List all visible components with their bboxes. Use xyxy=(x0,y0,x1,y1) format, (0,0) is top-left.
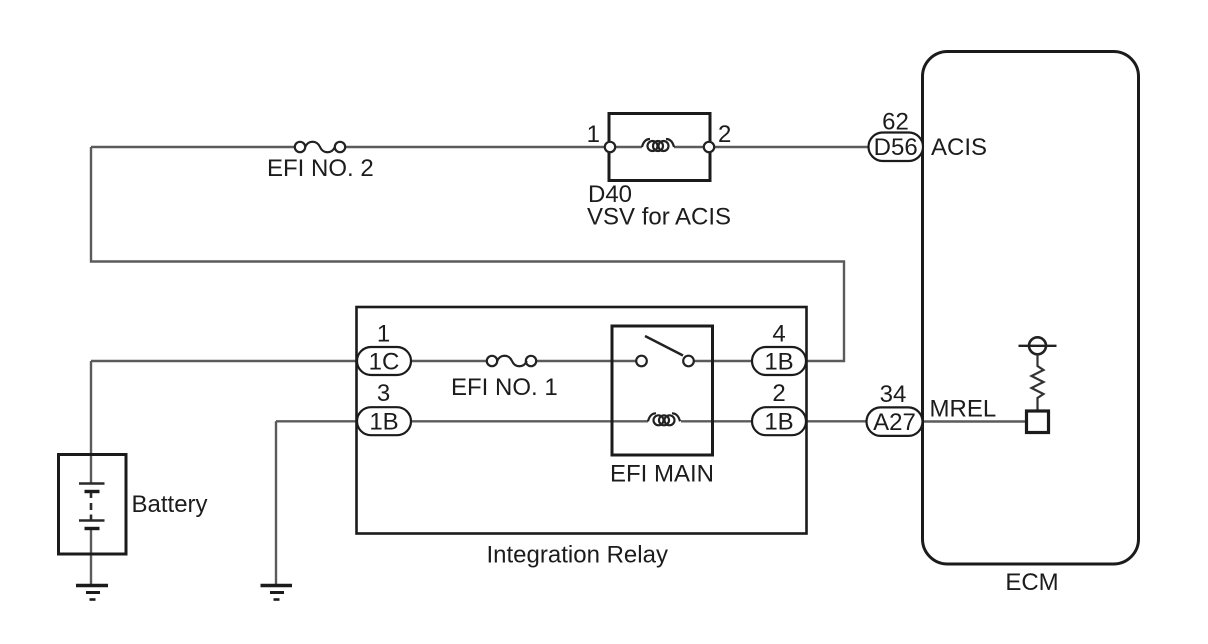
VSV D40 box xyxy=(609,114,710,181)
svg-text:ACIS: ACIS xyxy=(931,134,987,161)
svg-text:2: 2 xyxy=(718,121,731,148)
svg-text:3: 3 xyxy=(377,380,390,407)
svg-text:1C: 1C xyxy=(369,349,400,376)
VSV pin 1 xyxy=(605,142,615,152)
svg-text:VSV for ACIS: VSV for ACIS xyxy=(587,204,731,231)
svg-text:EFI NO. 2: EFI NO. 2 xyxy=(267,155,374,182)
svg-text:MREL: MREL xyxy=(930,396,997,423)
battery dashed link xyxy=(90,493,93,521)
svg-text:1B: 1B xyxy=(764,409,793,436)
battery cell plate short 2 xyxy=(85,527,100,530)
battery cell plate long 1 xyxy=(79,482,105,484)
ECM box xyxy=(923,52,1139,565)
svg-text:1: 1 xyxy=(587,121,600,148)
wire: EFI NO.1 fuse to switch xyxy=(536,360,636,362)
relay coil xyxy=(648,413,680,425)
ECM internal node crossbar xyxy=(1019,345,1057,347)
ECM internal driver square xyxy=(1027,411,1049,433)
relay switch blade xyxy=(645,336,683,356)
wire: VSV pin 2 to ECM terminal D56 xyxy=(714,146,869,148)
svg-text:1B: 1B xyxy=(764,349,793,376)
wire: ground drop vertical xyxy=(275,421,277,585)
wire: inside VSV box left of coil xyxy=(615,146,642,148)
svg-text:34: 34 xyxy=(880,381,907,408)
wire: pin 3 (1B) to relay coil xyxy=(411,420,648,422)
relay connector 1B (pin 4) xyxy=(752,347,806,375)
VSV coil L xyxy=(642,139,674,151)
wire: battery bottom to ground xyxy=(90,529,92,585)
svg-text:62: 62 xyxy=(882,109,909,136)
Integration Relay box xyxy=(357,307,807,534)
wire: inside VSV box right of coil xyxy=(674,146,704,148)
svg-text:EFI MAIN: EFI MAIN xyxy=(610,461,714,488)
wire: battery vertical drop xyxy=(90,361,92,483)
wire: pin 2 (1B) to ECM terminal A27 xyxy=(806,420,867,422)
svg-text:A27: A27 xyxy=(873,409,916,436)
Battery box xyxy=(59,455,127,555)
wire: fuse EFI NO.2 to VSV pin 1 xyxy=(345,146,610,148)
svg-text:4: 4 xyxy=(772,321,785,348)
fuse EFI NO. 2 xyxy=(295,142,345,153)
ground symbol (relay pin 3) xyxy=(261,586,293,600)
svg-text:ECM: ECM xyxy=(1005,569,1058,596)
wire: top feed from relay loop to EFI NO.2 fuse xyxy=(91,146,295,148)
svg-text:2: 2 xyxy=(772,380,785,407)
relay connector 1B (pin 3) xyxy=(357,407,411,435)
VSV pin 2 xyxy=(704,142,714,152)
relay switch contact left xyxy=(636,356,647,367)
ground symbol (battery) xyxy=(76,586,108,600)
svg-text:Integration Relay: Integration Relay xyxy=(487,542,668,569)
svg-text:D56: D56 xyxy=(874,134,918,161)
wire: A27 to MREL driver square inside ECM xyxy=(923,420,1026,422)
svg-text:EFI NO. 1: EFI NO. 1 xyxy=(451,374,558,401)
ECM connector A27 xyxy=(867,407,923,436)
relay connector 1C (pin 1) xyxy=(357,347,411,375)
battery cell plate short 1 xyxy=(85,490,100,493)
wire: U loop from top wire down, across, down to relay pin 4 xyxy=(91,147,844,361)
relay connector 1B (pin 2) xyxy=(752,407,806,435)
svg-text:1: 1 xyxy=(377,321,390,348)
ECM internal resistor R xyxy=(1032,354,1044,411)
battery cell plate long 2 xyxy=(79,519,105,521)
svg-text:Battery: Battery xyxy=(132,491,208,518)
wire: 1C to EFI NO.1 fuse xyxy=(411,360,487,362)
ECM connector D56 xyxy=(869,133,924,162)
wire: switch to pin 4 (1B) xyxy=(694,360,752,362)
ECM internal battery node circle xyxy=(1029,337,1046,354)
wire: relay pin 3 (1B) to ground drop xyxy=(276,420,357,422)
fuse EFI NO. 1 xyxy=(487,356,536,367)
wire: relay coil to pin 2 (1B) xyxy=(681,420,752,422)
relay switch contact right xyxy=(683,356,694,367)
wire: battery to relay pin 1 (1C) xyxy=(91,360,357,362)
svg-text:1B: 1B xyxy=(369,409,398,436)
EFI MAIN relay box xyxy=(612,326,713,455)
